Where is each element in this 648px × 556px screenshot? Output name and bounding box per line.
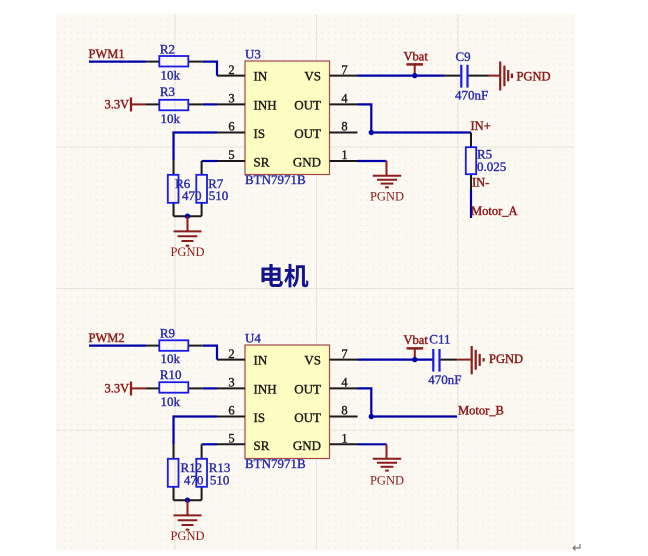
svg-text:10k: 10k: [161, 394, 181, 409]
svg-text:BTN7971B: BTN7971B: [245, 172, 306, 187]
svg-text:PGND: PGND: [517, 69, 551, 83]
power ground PGND (bar style) right of C11: [457, 346, 523, 374]
pin 1 of U4: [330, 432, 358, 446]
svg-text:SR: SR: [254, 154, 270, 169]
svg-text:10k: 10k: [161, 111, 181, 126]
ground PGND (earth) at pin 1: [370, 444, 404, 487]
svg-text:IS: IS: [254, 410, 266, 425]
svg-text:C11: C11: [429, 331, 450, 346]
resistor R10 10k: [146, 367, 203, 409]
svg-text:8: 8: [341, 404, 347, 418]
wire pin 5 to R7: [202, 160, 217, 162]
svg-text:7: 7: [341, 347, 347, 361]
svg-text:IN: IN: [254, 353, 268, 368]
svg-text:10k: 10k: [161, 351, 181, 366]
wire pin 6 to R6: [174, 133, 218, 161]
ground PGND (earth) below R12/R13: [170, 500, 204, 543]
svg-text:R10: R10: [160, 367, 182, 382]
svg-text:1: 1: [341, 432, 347, 446]
svg-text:6: 6: [228, 404, 234, 418]
pin 4 of U3: [330, 92, 358, 106]
svg-text:↵: ↵: [572, 540, 583, 555]
resistor R6 470: [168, 160, 179, 216]
svg-text:U4: U4: [245, 331, 261, 346]
svg-text:510: 510: [210, 473, 230, 488]
svg-text:2: 2: [228, 347, 234, 361]
svg-text:IN+: IN+: [471, 119, 491, 133]
svg-text:470nF: 470nF: [428, 372, 461, 387]
capacitor C9 470nF: [444, 49, 489, 103]
wire pin 6 to R12: [174, 417, 218, 445]
wire pin 1 to ground: [358, 160, 387, 162]
pin 6 of U4: [217, 404, 245, 418]
pin 2 of U4: [217, 347, 245, 361]
svg-text:5: 5: [228, 432, 234, 446]
wire PWM2 to R9: [89, 345, 146, 347]
svg-text:IN: IN: [254, 69, 268, 84]
pin 1 of U3: [330, 148, 358, 162]
pin 7 of U3: [330, 63, 358, 77]
pin 8 of U4: [330, 404, 358, 418]
svg-text:PGND: PGND: [170, 245, 204, 259]
title 电机: [261, 264, 308, 287]
pin 7 of U4: [330, 347, 358, 361]
svg-text:PGND: PGND: [370, 189, 404, 203]
svg-text:Vbat: Vbat: [404, 333, 429, 347]
resistor R2 10k: [146, 42, 203, 83]
power port 3.3V: [105, 381, 147, 395]
svg-text:6: 6: [228, 120, 234, 134]
wire pin 5 to R13: [202, 443, 217, 445]
power port 3.3V: [105, 97, 147, 111]
pin 5 of U4: [217, 432, 245, 446]
svg-text:4: 4: [341, 376, 348, 390]
resistor R13 510: [196, 444, 207, 500]
svg-text:3.3V: 3.3V: [105, 97, 130, 111]
svg-text:OUT: OUT: [294, 410, 321, 425]
circuit section U3 (motor driver A): [89, 42, 551, 260]
junction dot R12/R13: [185, 498, 190, 503]
wire joining R12 R13 bottoms: [174, 499, 202, 501]
svg-text:IS: IS: [254, 126, 266, 141]
power port Vbat: [404, 333, 429, 360]
svg-text:PGND: PGND: [370, 473, 404, 487]
junction dot pin 8: [369, 130, 374, 135]
resistor R7 510: [196, 161, 207, 216]
svg-text:0.025: 0.025: [477, 159, 506, 174]
svg-text:3: 3: [228, 92, 234, 106]
svg-text:R9: R9: [160, 326, 175, 341]
svg-text:5: 5: [228, 148, 234, 162]
pin 5 of U3: [217, 148, 245, 162]
wire R10 to pin 3: [203, 387, 217, 389]
wire joining R6 R7 bottoms: [174, 215, 202, 217]
power port Vbat: [404, 49, 429, 75]
pin 3 of U3: [217, 92, 245, 106]
power ground PGND (bar style) right of C9: [489, 62, 551, 91]
svg-text:10k: 10k: [161, 68, 181, 83]
svg-text:GND: GND: [293, 438, 321, 453]
svg-text:PWM1: PWM1: [89, 47, 125, 61]
svg-text:PGND: PGND: [489, 352, 523, 366]
wire pin 8 to R5: [371, 131, 471, 133]
wire R3 to pin 3: [203, 103, 217, 105]
svg-text:OUT: OUT: [294, 97, 321, 112]
svg-text:R2: R2: [160, 42, 175, 57]
pin 3 of U4: [217, 376, 245, 390]
svg-text:8: 8: [341, 120, 347, 134]
svg-text:INH: INH: [254, 97, 277, 112]
resistor R5 0.025 (shunt): [466, 133, 506, 190]
svg-text:IN-: IN-: [472, 175, 489, 189]
svg-text:Vbat: Vbat: [404, 49, 429, 63]
svg-text:R3: R3: [160, 84, 175, 99]
resistor R12 470: [168, 444, 179, 500]
resistor R3 10k: [146, 84, 203, 126]
svg-text:3.3V: 3.3V: [105, 381, 130, 395]
svg-text:U3: U3: [245, 47, 261, 62]
svg-text:1: 1: [341, 148, 347, 162]
svg-text:3: 3: [228, 376, 234, 390]
svg-text:470: 470: [182, 188, 202, 203]
op-amp U4 (BTN7971B driver IC body): [245, 331, 330, 472]
capacitor C11 470nF: [428, 331, 461, 387]
junction dot R6/R7: [185, 214, 190, 219]
svg-text:PWM2: PWM2: [89, 331, 125, 345]
circuit section U4 (motor driver B): [89, 326, 524, 544]
svg-text:VS: VS: [304, 353, 321, 368]
pin 4 of U4: [330, 376, 358, 390]
ground PGND (earth) below R6/R7: [170, 216, 204, 259]
svg-text:4: 4: [341, 92, 348, 106]
wire PWM1 to R2: [89, 60, 146, 62]
wire pin 1 to ground: [358, 443, 387, 445]
junction dot pin 8: [369, 414, 374, 419]
svg-text:PGND: PGND: [170, 529, 204, 543]
svg-text:Motor_A: Motor_A: [471, 204, 518, 218]
svg-text:2: 2: [228, 63, 234, 77]
wire R2 to pin 2: [203, 62, 217, 76]
wire pin 7 to C11: [358, 359, 433, 361]
svg-text:GND: GND: [293, 154, 321, 169]
svg-text:Motor_B: Motor_B: [458, 404, 504, 418]
svg-text:470: 470: [184, 473, 204, 488]
pin 8 of U3: [330, 120, 358, 134]
op-amp U3 (BTN7971B driver IC body): [245, 47, 330, 188]
resistor R9 10k: [146, 326, 203, 367]
svg-text:510: 510: [209, 188, 229, 203]
svg-text:C9: C9: [456, 49, 471, 64]
junction dot Vbat: [412, 73, 417, 78]
svg-text:OUT: OUT: [294, 126, 321, 141]
svg-text:OUT: OUT: [294, 381, 321, 396]
wire pin 7 to C9: [358, 74, 445, 76]
svg-text:BTN7971B: BTN7971B: [245, 456, 306, 471]
svg-text:SR: SR: [254, 438, 270, 453]
wire pin 4 down to pin 8: [358, 104, 372, 132]
wire R5 to Motor_A: [470, 190, 472, 219]
svg-text:VS: VS: [304, 69, 321, 84]
wire pin 4 down to pin 8: [358, 388, 372, 416]
svg-text:470nF: 470nF: [455, 88, 488, 103]
ground PGND (earth) at pin 1: [370, 161, 404, 203]
svg-text:INH: INH: [254, 381, 277, 396]
junction dot Vbat: [412, 357, 417, 362]
wire R9 to pin 2: [203, 346, 217, 360]
pin 6 of U3: [217, 120, 245, 134]
pin 2 of U3: [217, 63, 245, 77]
wire pin 8 to Motor_B: [371, 415, 457, 417]
svg-text:7: 7: [341, 63, 347, 77]
